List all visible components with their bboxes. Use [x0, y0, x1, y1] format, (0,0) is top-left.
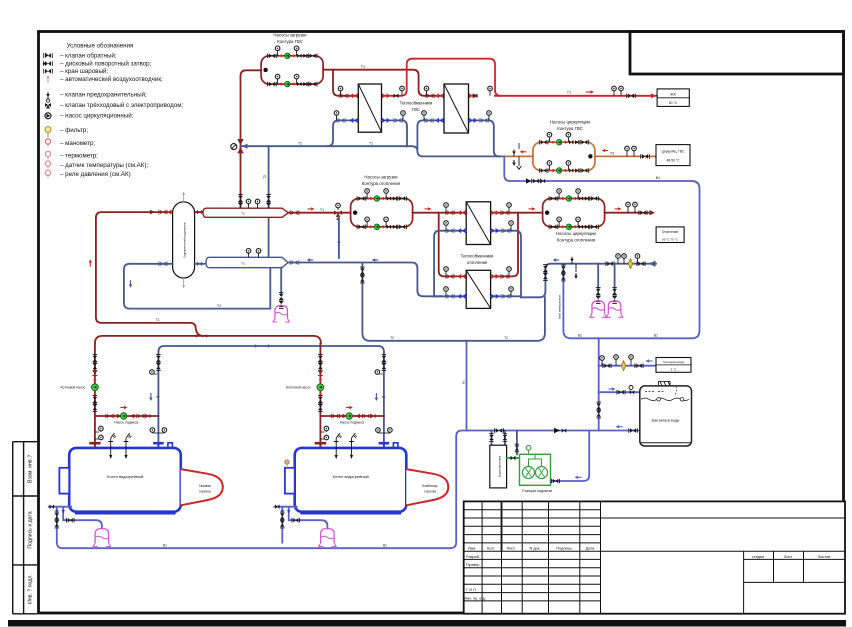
svg-text:Контура отопления: Контура отопления: [557, 238, 596, 243]
boiler safety valve 2 (котёл 1): [124, 433, 132, 459]
wire: насос подмеса line (котёл 1): [95, 415, 158, 417]
svg-text:В1: В1: [383, 543, 387, 547]
svg-text:Котел водогрейный: Котел водогрейный: [107, 474, 143, 479]
gauge HX2 cold right: [487, 111, 492, 121]
svg-text:Подпись и дата: Подпись и дата: [28, 511, 34, 548]
check valve on supply riser (котёл 1): [92, 370, 97, 376]
heat exchanger HX3 (отопление): [466, 202, 490, 245]
svg-text:Циркуляц. ГВС: Циркуляц. ГВС: [662, 150, 685, 154]
svg-text:Т2: Т2: [390, 336, 394, 340]
valves feed station: [511, 456, 516, 461]
svg-text:– фильтр;: – фильтр;: [60, 127, 88, 134]
port arrows HX2 hot right: [469, 93, 478, 98]
svg-text:Комбинир.: Комбинир.: [422, 484, 438, 488]
gauges supply out: [626, 202, 638, 213]
svg-text:горелка: горелка: [424, 490, 436, 494]
wire: circulation junction to loop (orange): [504, 155, 533, 157]
valve pair on supply riser (котёл 1): [93, 355, 98, 371]
svg-text:Газовая: Газовая: [199, 484, 211, 488]
svg-text:Т1: Т1: [369, 141, 373, 145]
svg-text:Т1: Т1: [241, 212, 245, 216]
red arrow after load loop: [425, 207, 432, 210]
label T2 rotated: [263, 175, 267, 179]
wire: boiler supply riser (котёл 1): [94, 344, 96, 442]
valve pair on riser above supply collector: [238, 195, 243, 211]
svg-text:5 °С: 5 °С: [671, 368, 678, 372]
wire: load loop to HX3: [413, 212, 465, 214]
valves HX2 hot left inlet: [426, 93, 444, 98]
boiler body (Котел водогрейный) (котёл 2): [295, 448, 407, 515]
title block: [464, 501, 845, 613]
svg-text:Холодная вода: Холодная вода: [663, 360, 684, 364]
gauges before ZhK box: [612, 86, 624, 96]
valves HX3 cold right: [491, 228, 510, 233]
svg-text:В1: В1: [654, 333, 658, 337]
svg-text:Котловой насос: Котловой насос: [61, 386, 86, 390]
check valve on supply riser (котёл 2): [318, 370, 323, 376]
valves at HX1 hot inlet: [340, 93, 358, 98]
svg-text:отопления: отопления: [467, 260, 487, 265]
svg-text:Изм.: Изм.: [468, 546, 476, 551]
svg-text:Т2: Т2: [381, 395, 385, 399]
return collector: [206, 257, 288, 267]
top notch (котёл 1): [168, 443, 173, 448]
svg-text:Бак запаса воды: Бак запаса воды: [652, 419, 680, 423]
valve pair on return drop: [543, 265, 548, 281]
boiler safety valve 1 (котёл 1): [108, 433, 116, 459]
svg-text:Т2: Т2: [156, 395, 160, 399]
svg-text:– автоматический воздухоотводч: – автоматический воздухоотводчик;: [60, 76, 163, 83]
gauges on circ return: [625, 146, 637, 156]
svg-text:Котловой насос: Котловой насос: [286, 386, 311, 390]
svg-text:Кол.: Кол.: [487, 546, 495, 551]
red arrow into ZhK: [651, 93, 656, 98]
port arrows HX1 cold left: [337, 118, 358, 123]
wire: boiler supply up to separator: [96, 212, 203, 336]
filter on makeup: [621, 361, 626, 371]
wire: branch down from manifold x=598.7: [598, 338, 600, 430]
svg-text:– дисковый поворотный затвор;: – дисковый поворотный затвор;: [60, 61, 152, 68]
blue arrow tank fill: [609, 387, 616, 390]
valves return collector right: [290, 260, 299, 265]
wire: supply collector to heating mixing junction: [288, 212, 350, 214]
boiler safety valve 2 (котёл 2): [349, 433, 357, 459]
mixing pump насос подмеса (котёл 1): [121, 413, 127, 419]
svg-text:ЖК: ЖК: [670, 93, 677, 97]
T2 down arrow on return riser (котёл 2): [375, 393, 386, 401]
gauges on return collector: [246, 249, 261, 258]
valves HX3 cold left: [446, 228, 466, 233]
wire: HX3 hot out to circulation loop: [491, 212, 543, 214]
supply flange (котёл 2): [315, 443, 326, 448]
svg-text:Нач. пр. отд.: Нач. пр. отд.: [465, 596, 486, 600]
label T1 near ZhK: [567, 91, 571, 95]
svg-text:Лист: Лист: [507, 546, 516, 551]
station make-up pump unit Станция подпитки: [520, 445, 551, 485]
wire: station discharge: [551, 431, 590, 482]
valves on mixing line (котёл 1): [106, 414, 150, 419]
svg-text:Т3: Т3: [610, 152, 614, 156]
label Баки мембранные: [558, 294, 562, 319]
wire: GVS T2 run from node to jog: [241, 146, 505, 156]
gauge HX3 hot left: [444, 203, 449, 213]
wire: vertical x=466.5 up to manifold: [466, 341, 468, 431]
boiler body (Котел водогрейный) (котёл 1): [69, 448, 181, 515]
svg-text:– клапан предохранительный;: – клапан предохранительный;: [60, 92, 147, 99]
wire: bottom drain header: [57, 543, 451, 549]
safety valve on circ line: [512, 143, 519, 156]
expansion flask under boiler (котёл 1): [93, 529, 112, 547]
boiler pump (котловой насос) (котёл 1): [92, 377, 99, 398]
red arrow circ return: [602, 149, 609, 152]
T2 down arrow on return riser (котёл 1): [149, 393, 160, 401]
top-right stamp box: [630, 32, 844, 75]
wire: station suction stub: [516, 431, 518, 455]
drain arrow on return: [574, 264, 577, 279]
svg-text:Т1: Т1: [156, 318, 160, 322]
wire: branch x=362.4 down to manifold2: [362, 263, 545, 341]
expansion flask under boiler (котёл 2): [318, 529, 337, 547]
gauge HX4 hot left: [444, 267, 449, 277]
svg-text:Т2: Т2: [504, 336, 508, 340]
wire: HX4 cold right port: [491, 295, 521, 297]
return flange (котёл 1): [153, 443, 164, 448]
svg-text:Насос подмеса: Насос подмеса: [340, 421, 364, 425]
port arrows HX1 hot outlet: [382, 93, 399, 98]
filter on return: [628, 259, 633, 269]
box ЖК 60С: [657, 89, 689, 107]
wire: HX2 cold right port down to T2 run: [469, 120, 500, 156]
red arrow supply out: [615, 207, 622, 210]
wire: tank bottom distribution line: [451, 431, 640, 549]
gauge HX4 hot right: [507, 267, 512, 277]
label Станция подпитки: [522, 489, 552, 493]
valves on return: [637, 261, 645, 266]
gauge at HX1 hot inlet: [338, 86, 343, 96]
navy arrow on return: [553, 258, 560, 261]
red arrow above mixing line (котёл 2): [346, 406, 353, 409]
gauge on return riser (котёл 2): [375, 370, 384, 375]
gauge HX4 cold left: [444, 287, 449, 297]
valves tank fill: [617, 390, 625, 395]
valves on return 2: [606, 261, 614, 266]
valves separator supply right: [197, 210, 202, 215]
membrane flask 2: [606, 301, 624, 318]
valves HX4 cold left: [446, 294, 466, 299]
safety valve on return: [570, 257, 574, 264]
wire: HX1 cold port left down to T2 run: [327, 120, 358, 146]
label Котловой насос (котёл 1): [61, 386, 86, 390]
svg-text:– клапан трёхходовый с электро: – клапан трёхходовый с электроприводом;: [60, 102, 183, 109]
gauge HX3 hot right: [507, 203, 512, 213]
svg-text:Контура ГВС: Контура ГВС: [557, 126, 583, 131]
valve before ZhK box: [627, 94, 636, 99]
labels on manifold: [578, 333, 658, 337]
box Водоподготовка: [490, 445, 507, 488]
wire: branch down to HX4 hot: [439, 213, 465, 277]
svg-text:Взам. инв.?: Взам. инв.?: [28, 455, 34, 483]
svg-text:Контура ГВС: Контура ГВС: [277, 39, 303, 44]
red arrow to heating: [308, 207, 315, 210]
valves separator return right: [197, 262, 202, 267]
svg-text:95 °С 70 °С: 95 °С 70 °С: [662, 238, 679, 242]
wire: HX3 cold right down: [491, 231, 521, 298]
svg-text:Т2: Т2: [263, 175, 267, 179]
down arrow annotation on boiler return: [129, 280, 132, 288]
valve pair on x=598.7: [596, 402, 601, 418]
burner (Газовая) (котёл 1): [181, 469, 223, 505]
svg-text:Г И П: Г И П: [466, 587, 476, 592]
valves on makeup: [603, 363, 611, 368]
red arrow above mixing line (котёл 1): [120, 406, 127, 409]
wire: boiler return riser (котёл 1): [157, 352, 159, 442]
wire: HX1 hot outlet up and over to HX2 right port (bright red): [382, 59, 501, 96]
return flange (котёл 2): [379, 443, 390, 448]
label T1 on GVS supply: [359, 65, 367, 69]
temperature sensor on boiler 2 hatch: [285, 460, 289, 468]
vertical from T2 run down through collectors x=268.6: [268, 146, 270, 257]
gauges at return flange (котёл 2): [376, 428, 393, 433]
labels on manifold2: [390, 336, 508, 340]
svg-text:Т1: Т1: [298, 141, 302, 145]
wire: feed to station: [507, 457, 520, 459]
label Насос подмеса (котёл 1): [114, 421, 138, 425]
valve pair on supply riser low (котёл 1): [93, 396, 98, 412]
svg-text:Котел водогрейный: Котел водогрейный: [333, 474, 369, 479]
valves HX3 hot right: [491, 210, 509, 215]
gauges on supply collector: [246, 199, 260, 208]
pump group: Насосы загрузки Контура ГВС: [261, 33, 323, 87]
gauges on return: [616, 254, 640, 264]
valves on tank bottom line: [494, 428, 503, 433]
wire: GVS load loop to T1 run and down to HX1: [323, 70, 443, 96]
gauge HX2 cold left mid: [422, 111, 427, 121]
svg-text:Провер.: Провер.: [466, 562, 481, 567]
three-way mixing valve node GVS: [231, 139, 248, 153]
svg-text:Теплообменники: Теплообменники: [400, 101, 433, 106]
svg-text:– клапан обратный;: – клапан обратный;: [60, 53, 117, 60]
expansion tank stub below return collector: [279, 268, 284, 309]
svg-text:Насос подмеса: Насос подмеса: [114, 421, 138, 425]
gauges on makeup: [600, 355, 634, 366]
wire: return collector right to HX4: [288, 263, 442, 297]
svg-text:стадия: стадия: [752, 554, 764, 559]
valves on station stub: [515, 444, 520, 452]
left stamp sidebar: [13, 442, 37, 614]
svg-text:Т2: Т2: [241, 261, 245, 265]
boiler left hatch (котёл 2): [285, 468, 295, 494]
three-way mixing valve heating: [334, 203, 342, 220]
gauge HX1 cold right: [401, 111, 406, 121]
svg-text:Лист: Лист: [784, 554, 793, 559]
valve pair on x=362.4: [360, 267, 365, 283]
svg-text:В1: В1: [578, 333, 582, 337]
burner (Комбинир.) (котёл 2): [406, 469, 448, 505]
drain with down arrow: [512, 156, 521, 169]
check valve and valves on V1: [526, 178, 545, 183]
valve pairs on flask stubs: [596, 288, 617, 304]
boiler safety valve 1 (котёл 2): [334, 433, 342, 459]
wire: cold water make-up line: [599, 365, 656, 367]
wire: tank fill line: [599, 391, 640, 393]
valve pair on x=563.4 riser: [561, 265, 566, 281]
label Теплообменники отопления: [461, 254, 494, 266]
svg-text:ГВС: ГВС: [412, 107, 420, 112]
svg-text:Инв. ? подл.: Инв. ? подл.: [28, 574, 34, 604]
svg-text:– манометр;: – манометр;: [60, 140, 95, 147]
svg-text:Дата: Дата: [586, 546, 595, 551]
wire: circ loop to Циркуляция box: [595, 155, 656, 157]
valve pair on return riser (котёл 1): [156, 355, 161, 371]
wire: separator to return collector left: [195, 263, 206, 265]
blue arrow makeup: [646, 359, 653, 362]
wire: boiler supply manifold: [95, 336, 321, 344]
wire: HX1 right + HX2 left cold ports to vertical x=417.4: [382, 120, 445, 149]
svg-text:Станция подпитки: Станция подпитки: [522, 489, 552, 493]
supply end arrow: [650, 210, 656, 215]
wire: boiler drain lines (котёл 2): [274, 507, 327, 543]
valves separator supply left: [150, 210, 172, 215]
valves HX4 hot left: [446, 274, 466, 279]
wire: separator return left to line C: [124, 264, 270, 309]
svg-text:горелка: горелка: [199, 490, 211, 494]
port arrows HX2 cold right: [469, 118, 488, 123]
svg-text:Листов: Листов: [818, 554, 831, 559]
membrane flask stubs: [598, 264, 614, 292]
wire: V1 from junction down and right: [504, 156, 692, 181]
valve pair on supply riser (котёл 2): [318, 355, 323, 371]
port arrows HX1 cold right: [382, 118, 402, 123]
wire: V1 vertical down right side and manifold to x=563.4: [563, 181, 699, 338]
label T2 mid: [298, 141, 373, 145]
check valve on tank line: [554, 428, 566, 433]
red arrow on circ line: [520, 150, 527, 153]
pump group: Насосы циркуляции Контура отопления: [543, 189, 605, 243]
valves on stubs: [489, 434, 507, 442]
box Циркуляция ГВС: [656, 145, 690, 166]
membrane flask 1: [589, 301, 607, 318]
blue arrow tank out: [616, 425, 623, 428]
box Холодная вода: [656, 358, 691, 373]
gauge HX4 cold right: [509, 287, 514, 297]
label T1 heating: [320, 208, 324, 212]
arrows on return manifold: [253, 344, 273, 347]
svg-text:– термометр;: – термометр;: [60, 152, 98, 159]
boiler pump (котловой насос) (котёл 2): [317, 377, 324, 398]
label Теплообменники ГВС: [400, 101, 433, 113]
red arrow to circ loop: [529, 207, 536, 210]
wire: HX4 cold left port: [434, 295, 466, 297]
heat exchanger HX1 (Теплообменники ГВС): [358, 84, 381, 132]
label V1: [656, 176, 660, 180]
wire: boiler drain lines (котёл 1): [49, 507, 102, 543]
valves separator return left: [159, 262, 167, 267]
valve circ return: [641, 154, 650, 159]
legend: [43, 43, 184, 179]
pump group: Насосы загрузки Контура отопления: [351, 175, 413, 230]
wire: насос подмеса line (котёл 2): [320, 415, 384, 417]
label Насос подмеса (котёл 2): [340, 421, 364, 425]
pump group: Насосы циркуляции Контура ГВС: [533, 120, 595, 174]
heat exchanger HX2: [444, 84, 469, 133]
wire: HX4 hot out up: [491, 213, 518, 277]
svg-text:Насосы циркуляции: Насосы циркуляции: [550, 120, 590, 125]
labels on drain header: [163, 543, 387, 547]
drain valves (котёл 1): [50, 504, 75, 528]
svg-text:Отопление: Отопление: [662, 230, 679, 234]
wire: HX3 cold left down to HX4 cold left: [434, 231, 466, 297]
svg-text:– насос циркуляционный;: – насос циркуляционный;: [60, 113, 134, 120]
float valve: [629, 386, 634, 395]
supply collector: [203, 208, 288, 217]
membrane flask at collectors: [272, 306, 290, 323]
hydraulic separator Гидравлический разделитель: [173, 192, 195, 289]
valves after supply collector: [290, 210, 299, 215]
valves HX4 hot right: [491, 274, 509, 279]
label B1 on vertical: [461, 380, 465, 384]
svg-text:Т1: Т1: [567, 91, 571, 95]
svg-text:Теплообменники: Теплообменники: [461, 254, 494, 259]
gauge HX3 cold right: [509, 221, 514, 231]
up arrow annotation on boiler supply: [89, 259, 92, 267]
wire: GVS supply riser x=240.5 (node to load loop): [241, 70, 262, 208]
drain valves (котёл 2): [275, 504, 300, 528]
valve pair on return riser (котёл 2): [382, 355, 387, 371]
top notch (котёл 2): [393, 443, 398, 448]
svg-text:– кран шаровый;: – кран шаровый;: [60, 68, 108, 75]
svg-text:Насосы загрузки: Насосы загрузки: [273, 33, 307, 38]
wire: heating supply to consumers: [605, 212, 649, 214]
boiler left hatch (котёл 1): [59, 468, 69, 494]
port arrows HX2 cold left: [425, 118, 444, 123]
valves on mixing line (котёл 2): [331, 414, 375, 419]
arrows on supply manifold: [194, 334, 210, 337]
svg-text:Разраб.: Разраб.: [466, 554, 480, 559]
wire: boiler return manifold: [158, 346, 384, 352]
wire: branch down to HX1 hot inlet: [333, 70, 358, 96]
valves HX4 cold right: [491, 294, 510, 299]
gauge HX1 cold left: [334, 111, 339, 121]
valve pair on x=268.6 vertical: [266, 195, 271, 211]
svg-text:Гидравлический разделитель: Гидравлический разделитель: [183, 222, 187, 258]
svg-text:Контура отопления: Контура отопления: [362, 181, 401, 186]
wire: stubs to водоподготовка: [492, 431, 505, 446]
gauge above HX1 right port: [400, 86, 405, 96]
svg-text:Насосы загрузки: Насосы загрузки: [364, 175, 398, 180]
svg-text:Подпись: Подпись: [556, 546, 571, 551]
gauge HX2 left: [424, 86, 429, 96]
blue arrow station discharge: [575, 476, 582, 479]
gauge HX3 cold left: [444, 221, 449, 231]
svg-text:Условные обозначения: Условные обозначения: [67, 43, 134, 50]
svg-text:Насосы циркуляции: Насосы циркуляции: [556, 231, 596, 236]
wire: mixing junction down to return run: [337, 217, 340, 258]
navy arrows on return run: [307, 258, 379, 261]
svg-text:Т1: Т1: [320, 208, 324, 212]
tank Бак запаса воды: [640, 381, 692, 446]
wire: boiler supply riser (котёл 2): [319, 344, 321, 442]
gauge HX2 right: [488, 86, 493, 96]
svg-text:– датчик температуры (см.АК);: – датчик температуры (см.АК);: [60, 162, 148, 169]
mixing pump насос подмеса (котёл 2): [346, 413, 352, 419]
label T3: [610, 152, 614, 156]
label Котловой насос (котёл 2): [286, 386, 311, 390]
valves near tank: [629, 428, 638, 433]
valves HX3 hot left: [446, 210, 466, 215]
svg-text:60 °С: 60 °С: [669, 101, 678, 105]
gauges at supply flange (котёл 1): [95, 426, 103, 440]
svg-text:Водоподготовка: Водоподготовка: [498, 455, 502, 477]
